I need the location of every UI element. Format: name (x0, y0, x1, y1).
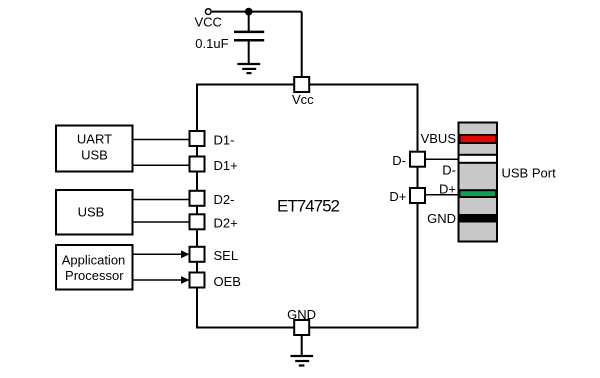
pin D1+ box (190, 157, 205, 172)
pin D2- box (190, 191, 205, 206)
junction dot (245, 8, 253, 16)
svg-text:USB: USB (78, 205, 105, 220)
chip U1 ET74752 body (197, 85, 418, 328)
svg-text:VBUS: VBUS (421, 131, 457, 146)
svg-text:D+: D+ (389, 189, 406, 204)
wire junction to capacitor (248, 12, 250, 32)
wire capacitor to ground (248, 41, 250, 63)
svg-text:UART: UART (77, 132, 112, 147)
svg-text:GND: GND (427, 211, 456, 226)
svg-text:Vcc: Vcc (292, 92, 314, 107)
pin GND box (294, 320, 309, 335)
box Application Processor (56, 245, 133, 290)
ground symbol bottom (291, 356, 314, 366)
pin D2+ box (190, 214, 205, 229)
svg-text:D-: D- (442, 162, 456, 177)
svg-text:D2-: D2- (214, 192, 235, 207)
D- contact (white) (459, 155, 498, 163)
svg-text:OEB: OEB (214, 274, 241, 289)
svg-text:Processor: Processor (65, 268, 124, 283)
box UART USB (56, 126, 133, 172)
wire VCC rail horizontal (212, 11, 302, 13)
svg-text:SEL: SEL (214, 248, 239, 263)
wire USB to D2+ (133, 221, 190, 223)
svg-text:0.1uF: 0.1uF (195, 36, 228, 51)
wire UART USB to D1+ (133, 164, 190, 166)
ground symbol under capacitor (237, 64, 260, 73)
svg-text:Application: Application (62, 253, 126, 268)
svg-text:USB Port: USB Port (502, 165, 557, 180)
svg-text:D2+: D2+ (214, 216, 238, 231)
wire D+ to USB port (425, 194, 459, 196)
box USB (56, 190, 133, 235)
svg-text:D-: D- (392, 153, 406, 168)
svg-text:D1-: D1- (214, 132, 235, 147)
wire GND pin to ground (301, 335, 303, 355)
svg-text:ET74752: ET74752 (277, 196, 340, 215)
svg-text:GND: GND (287, 307, 316, 322)
USB port connector body (459, 123, 498, 242)
VCC terminal circle (205, 9, 211, 15)
pin OEB box (190, 273, 205, 288)
pin D+ box (410, 188, 425, 203)
D+ contact (green) (460, 190, 497, 197)
GND contact (black) (459, 215, 498, 222)
pin D1- box (190, 131, 205, 146)
wire junction to Vcc pin vertical (301, 12, 303, 78)
svg-text:D1+: D1+ (214, 158, 238, 173)
wire Application Processor to SEL with arrow (133, 253, 183, 255)
svg-text:USB: USB (81, 148, 108, 163)
wire D- to USB port (425, 158, 459, 160)
VBUS contact (red) (460, 135, 497, 143)
wire Application Processor to OEB with arrow (133, 279, 183, 281)
svg-text:D+: D+ (439, 181, 456, 196)
wire UART USB to D1- (133, 139, 190, 141)
svg-text:VCC: VCC (195, 15, 222, 30)
capacitor C1 (234, 32, 264, 40)
pin Vcc box (294, 77, 309, 92)
pin D- box (410, 152, 425, 167)
wire USB to D2- (133, 199, 190, 201)
pin SEL box (190, 247, 205, 262)
